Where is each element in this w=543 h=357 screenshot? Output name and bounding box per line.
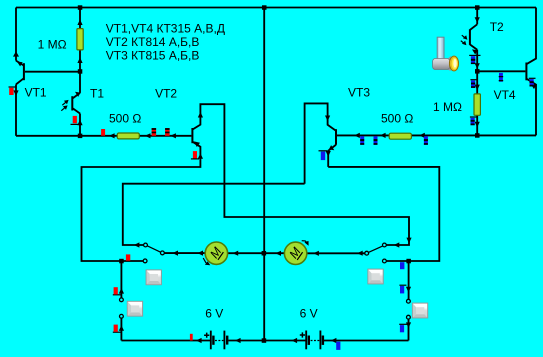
svg-text:6 V: 6 V — [205, 307, 223, 321]
svg-text:500 Ω: 500 Ω — [109, 112, 141, 126]
svg-text:VT3 КТ815 А,Б,В: VT3 КТ815 А,Б,В — [106, 48, 200, 62]
svg-text:6 V: 6 V — [300, 307, 318, 321]
svg-text:T1: T1 — [90, 87, 104, 101]
svg-text:500 Ω: 500 Ω — [381, 112, 413, 126]
svg-text:VT3: VT3 — [348, 85, 370, 99]
svg-text:VT1: VT1 — [25, 85, 47, 99]
svg-text:1 МΩ: 1 МΩ — [38, 38, 67, 52]
svg-text:VT1,VT4 КТ315 А,В,Д: VT1,VT4 КТ315 А,В,Д — [106, 21, 225, 35]
svg-text:VT2 КТ814 А,Б,В: VT2 КТ814 А,Б,В — [106, 35, 200, 49]
svg-text:VT4: VT4 — [494, 88, 516, 102]
svg-text:1 МΩ: 1 МΩ — [433, 100, 462, 114]
svg-text:VT2: VT2 — [155, 87, 177, 101]
svg-text:T2: T2 — [490, 20, 504, 34]
